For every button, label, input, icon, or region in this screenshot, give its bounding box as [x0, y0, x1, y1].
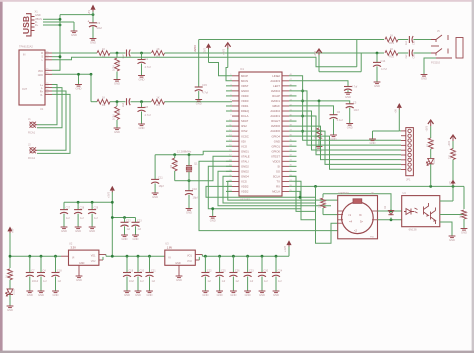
ground — [52, 290, 59, 292]
svg-text:+5V: +5V — [394, 109, 397, 114]
ground — [114, 127, 121, 129]
svg-text:GPIO4: GPIO4 — [271, 134, 280, 138]
svg-text:GND: GND — [75, 229, 81, 233]
svg-text:1uf: 1uf — [250, 280, 254, 283]
capacitor C27 — [63, 202, 65, 209]
wire — [413, 52, 431, 54]
svg-text:GND: GND — [202, 293, 208, 297]
wire — [356, 40, 358, 67]
ground — [186, 208, 193, 210]
svg-text:RCAP: RCAP — [272, 94, 280, 98]
wire — [223, 176, 316, 203]
resistor R7 — [318, 101, 320, 128]
wire — [37, 91, 66, 150]
svg-text:+5V: +5V — [450, 180, 452, 184]
svg-text:1uf: 1uf — [127, 228, 131, 231]
svg-text:10nf: 10nf — [354, 108, 359, 112]
connector X1 USB — [26, 14, 35, 36]
resistor R13 — [385, 37, 398, 42]
svg-text:1uf: 1uf — [235, 280, 239, 283]
svg-text:GND: GND — [139, 78, 145, 82]
svg-text:C6: C6 — [337, 110, 341, 114]
wire to +5V — [60, 14, 93, 16]
wire to IC — [165, 101, 233, 103]
svg-text:GND: GND — [79, 262, 85, 265]
supply arrow — [428, 120, 434, 124]
ground — [132, 234, 139, 236]
ground — [346, 123, 353, 125]
svg-text:R14: R14 — [11, 270, 14, 275]
svg-text:C19: C19 — [129, 270, 134, 273]
wire — [131, 52, 152, 54]
svg-text:R-: R- — [40, 94, 43, 97]
svg-text:4.7uf: 4.7uf — [202, 91, 208, 95]
supply arrow — [397, 103, 402, 108]
svg-text:VO1: VO1 — [91, 254, 96, 257]
resistor R10 220 — [322, 194, 324, 198]
ground — [273, 290, 280, 292]
svg-text:R4: R4 — [102, 55, 106, 59]
wire — [199, 161, 338, 230]
svg-text:AGND1: AGND1 — [270, 114, 280, 118]
ground — [178, 265, 180, 275]
wire MIDI left vert — [316, 186, 338, 243]
capacitor C10 — [185, 190, 193, 192]
svg-text:GND: GND — [76, 278, 82, 282]
wire to header — [289, 111, 401, 150]
svg-text:R8: R8 — [102, 103, 106, 107]
svg-text:R1: R1 — [156, 103, 160, 107]
wire to header — [289, 116, 401, 155]
svg-text:1K: 1K — [426, 144, 429, 147]
svg-text:C10: C10 — [192, 187, 197, 191]
svg-text:P1: P1 — [46, 55, 48, 57]
svg-text:+3V3: +3V3 — [223, 48, 226, 55]
svg-text:P1: P1 — [46, 51, 48, 53]
svg-text:USB: USB — [21, 16, 31, 34]
ground — [75, 84, 82, 86]
svg-text:GND: GND — [273, 293, 279, 297]
svg-text:2u2: 2u2 — [122, 102, 125, 107]
wire — [319, 71, 361, 73]
wire L pin long — [52, 57, 357, 66]
svg-text:C13: C13 — [413, 40, 416, 45]
ground — [121, 234, 128, 236]
svg-text:VO2: VO2 — [187, 260, 192, 263]
capacitor C23 — [135, 218, 137, 223]
svg-text:GND: GND — [114, 130, 120, 134]
ground — [26, 290, 33, 292]
svg-text:GND: GND — [38, 74, 44, 77]
svg-text:1uf: 1uf — [207, 280, 211, 283]
wire — [64, 201, 112, 203]
svg-text:GND1: GND1 — [241, 149, 249, 153]
wire — [201, 255, 203, 257]
ground — [75, 226, 82, 228]
supply +1V8 — [286, 240, 291, 245]
svg-text:LED1: LED1 — [433, 157, 436, 164]
svg-text:4K7: 4K7 — [465, 210, 468, 215]
svg-text:4.7uf: 4.7uf — [381, 67, 387, 71]
svg-text:12.288MHz: 12.288MHz — [177, 149, 192, 153]
IC1 pins — [232, 75, 239, 77]
svg-text:LINE2: LINE2 — [272, 74, 280, 78]
svg-text:PJ320J: PJ320J — [431, 61, 441, 65]
svg-text:C18: C18 — [57, 270, 62, 273]
capacitor C21 — [149, 256, 151, 272]
wire — [360, 53, 362, 72]
capacitor C23 — [247, 256, 249, 272]
svg-text:VDD2: VDD2 — [241, 190, 249, 194]
capacitor C16 series — [408, 50, 410, 57]
svg-text:R2: R2 — [156, 55, 160, 59]
wire — [206, 186, 316, 197]
capacitor C1 — [141, 53, 143, 60]
supply arrow — [206, 43, 211, 48]
wire — [110, 101, 126, 103]
capacitor C2 series — [126, 50, 128, 57]
capacitor C12 — [344, 86, 352, 88]
wire — [37, 88, 62, 128]
capacitor C13 series — [408, 36, 410, 43]
supply arrow — [450, 180, 455, 184]
svg-text:100K: 100K — [113, 114, 116, 120]
wire — [399, 130, 401, 132]
svg-text:C22: C22 — [126, 219, 131, 222]
supply arrow — [316, 49, 322, 53]
op-amp IC1 VS1053 — [239, 72, 282, 196]
wire 5V vertical — [59, 15, 61, 71]
capacitor C11 — [154, 155, 156, 180]
svg-text:IC1: IC1 — [240, 67, 245, 71]
svg-text:DREQ: DREQ — [241, 109, 250, 113]
capacitor C5 — [346, 103, 354, 105]
svg-text:RIGHT: RIGHT — [271, 119, 280, 123]
svg-text:1uf: 1uf — [140, 280, 144, 283]
svg-text:X1: X1 — [35, 10, 39, 14]
wire — [188, 155, 190, 166]
svg-text:P1: P1 — [46, 83, 48, 85]
svg-text:AVDD2: AVDD2 — [271, 89, 281, 93]
U1 pin stubs — [45, 52, 52, 54]
supply +3V3 — [225, 43, 231, 47]
resistor R9 — [116, 102, 118, 106]
svg-text:R15: R15 — [389, 55, 394, 59]
wire — [43, 21, 74, 23]
svg-text:GND: GND — [152, 195, 158, 199]
wire — [226, 190, 232, 192]
ground — [421, 74, 428, 76]
ground — [449, 235, 456, 237]
diode D2 — [390, 207, 392, 211]
ground — [7, 305, 14, 307]
wire GBUF cap — [289, 106, 334, 115]
svg-text:GND: GND — [217, 293, 223, 297]
wire RX down — [289, 181, 316, 220]
svg-text:4.7uf: 4.7uf — [145, 65, 151, 69]
svg-text:1uf: 1uf — [80, 217, 84, 220]
wire — [131, 101, 152, 103]
capacitor C7 — [29, 256, 31, 272]
svg-text:C20: C20 — [140, 270, 145, 273]
svg-text:AVDD1: AVDD1 — [271, 99, 281, 103]
svg-text:MICP: MICP — [241, 74, 248, 78]
svg-text:MICN: MICN — [241, 79, 248, 83]
capacitor C6 — [330, 114, 338, 116]
wire — [430, 164, 432, 186]
svg-text:IN: IN — [23, 54, 26, 57]
wire +5V bus — [289, 185, 464, 187]
svg-text:+5V: +5V — [88, 10, 91, 15]
capacitor C14 — [376, 53, 378, 62]
svg-text:100K: 100K — [113, 65, 116, 71]
svg-text:MCLA: MCLA — [272, 190, 280, 194]
svg-text:6N138: 6N138 — [409, 228, 417, 232]
capacitor C29 — [91, 202, 93, 209]
svg-text:GND: GND — [124, 293, 130, 297]
capacitor C9 series — [126, 98, 128, 105]
svg-text:1uf: 1uf — [152, 280, 156, 283]
ground — [195, 99, 202, 101]
frame border bottom — [0, 351, 474, 353]
crystal Q1 — [186, 165, 192, 167]
svg-text:P1: P1 — [46, 86, 48, 88]
svg-text:C25: C25 — [221, 270, 226, 273]
connector JP1 header — [406, 128, 414, 176]
svg-text:RCA1: RCA1 — [28, 131, 36, 135]
optocoupler U4 6N138 — [402, 196, 440, 227]
svg-text:GND: GND — [35, 14, 41, 17]
svg-text:1uf: 1uf — [138, 228, 142, 231]
svg-text:GND: GND — [61, 229, 67, 233]
svg-text:VI: VI — [72, 256, 75, 259]
wire — [9, 280, 11, 289]
svg-text:AVDD: AVDD — [194, 45, 197, 52]
svg-text:VDD1: VDD1 — [241, 104, 249, 108]
svg-text:1K: 1K — [102, 96, 105, 100]
svg-text:GND: GND — [259, 293, 265, 297]
wire LINE2 to header — [289, 76, 401, 141]
wire S pin — [52, 56, 60, 58]
wire AVDD cap — [289, 81, 348, 87]
svg-text:GND0: GND0 — [241, 89, 249, 93]
wire — [378, 219, 402, 221]
svg-text:GND: GND — [27, 293, 33, 297]
wire rail — [10, 255, 61, 257]
capacitor C19 — [126, 256, 128, 272]
svg-text:P1: P1 — [46, 93, 48, 95]
resistor R14 — [8, 269, 13, 280]
wire — [37, 85, 57, 125]
ground — [230, 290, 237, 292]
ground — [209, 216, 216, 218]
svg-text:R13: R13 — [389, 41, 394, 45]
svg-text:220: 220 — [449, 154, 452, 159]
wire — [398, 52, 408, 54]
ground — [347, 90, 349, 92]
svg-text:SDAT: SDAT — [241, 119, 249, 123]
capacitor C22 — [124, 218, 126, 223]
capacitor C15 — [195, 86, 203, 88]
svg-text:I2S2: I2S2 — [241, 124, 247, 128]
DIN pin stubs — [338, 210, 343, 212]
wire to header — [289, 136, 401, 169]
wire — [228, 181, 338, 200]
svg-text:VS1053: VS1053 — [240, 198, 250, 202]
svg-text:SI: SI — [277, 164, 280, 168]
svg-text:C22: C22 — [207, 270, 212, 273]
wire opto out — [440, 214, 464, 216]
svg-text:+3V3: +3V3 — [314, 50, 317, 56]
connector J6 MAB5SH DIN — [338, 196, 378, 239]
wire gnd branch — [212, 209, 214, 216]
wire XTALI — [203, 151, 232, 155]
wire VCC — [52, 69, 60, 71]
svg-text:Q1: Q1 — [194, 162, 198, 166]
svg-text:XCS: XCS — [241, 180, 247, 184]
svg-text:XDI: XDI — [241, 139, 246, 143]
svg-text:AGND3: AGND3 — [270, 79, 280, 83]
wire — [102, 257, 104, 260]
ground — [461, 228, 468, 230]
svg-text:R10: R10 — [324, 199, 327, 204]
svg-text:VDD0: VDD0 — [241, 99, 249, 103]
wire to header — [289, 126, 401, 160]
svg-text:AGND0: AGND0 — [270, 129, 280, 133]
svg-text:GND: GND — [461, 231, 467, 235]
svg-text:10uf: 10uf — [97, 26, 103, 30]
svg-text:C24: C24 — [278, 270, 283, 273]
ground — [244, 290, 251, 292]
ground — [374, 81, 381, 83]
svg-text:1K: 1K — [390, 34, 393, 38]
svg-text:C16: C16 — [413, 53, 416, 58]
wire row2 feed — [90, 74, 92, 101]
svg-text:GND: GND — [135, 293, 141, 297]
svg-text:GND4: GND4 — [241, 175, 249, 179]
wire opto vcc — [440, 200, 453, 202]
frame border left — [0, 0, 3, 353]
svg-text:GND: GND — [147, 293, 153, 297]
wire — [430, 149, 432, 158]
svg-text:GND: GND — [7, 308, 13, 312]
svg-text:1uf: 1uf — [43, 280, 47, 283]
svg-text:GBUF: GBUF — [272, 104, 280, 108]
svg-text:C28: C28 — [80, 207, 85, 210]
svg-text:1.8V: 1.8V — [167, 246, 173, 250]
svg-text:C8: C8 — [145, 105, 149, 109]
svg-text:2u2: 2u2 — [405, 40, 408, 45]
wire RCAP cap — [289, 101, 350, 104]
svg-text:VO2: VO2 — [91, 260, 96, 263]
svg-text:C23: C23 — [137, 219, 142, 222]
capacitor C28 — [77, 202, 79, 209]
resistor R16 — [428, 138, 433, 149]
svg-text:1uf: 1uf — [222, 280, 226, 283]
wire XTALO — [189, 156, 232, 181]
ground — [61, 226, 68, 228]
ground — [152, 192, 159, 194]
svg-text:U2: U2 — [69, 241, 73, 245]
svg-text:1uf: 1uf — [66, 217, 70, 220]
svg-text:GND: GND — [76, 87, 82, 91]
svg-text:VI: VI — [168, 256, 171, 259]
svg-text:1uf: 1uf — [94, 217, 98, 220]
svg-text:IOS2: IOS2 — [241, 129, 248, 133]
wire long top y39.5 — [199, 39, 384, 41]
svg-text:GND2: GND2 — [241, 164, 249, 168]
svg-text:VDD0: VDD0 — [241, 94, 249, 98]
ground — [138, 75, 145, 77]
resistor R1 — [152, 99, 165, 104]
wire — [323, 214, 338, 216]
ground — [138, 123, 145, 125]
svg-text:OUT: OUT — [22, 88, 28, 91]
svg-text:XTEST: XTEST — [271, 154, 280, 158]
svg-text:1K: 1K — [156, 47, 159, 51]
svg-text:P1: P1 — [46, 73, 48, 75]
svg-text:C27: C27 — [66, 207, 71, 210]
svg-text:GND: GND — [133, 237, 139, 241]
svg-text:1K: 1K — [156, 96, 159, 100]
LED2 — [7, 289, 13, 295]
ground — [330, 134, 337, 136]
svg-text:C14: C14 — [381, 59, 386, 63]
resistor R6 — [463, 186, 465, 209]
capacitor C24 — [275, 256, 277, 272]
op-amp U1 box — [19, 50, 45, 105]
capacitor C26 — [232, 256, 234, 272]
svg-text:R17: R17 — [454, 150, 457, 155]
wire crystal top node — [155, 154, 203, 156]
svg-text:VDD2: VDD2 — [241, 185, 249, 189]
svg-text:4.7uf: 4.7uf — [145, 113, 151, 117]
ground — [38, 290, 45, 292]
resistor R2 — [152, 51, 165, 56]
svg-text:MAB5SH: MAB5SH — [339, 191, 350, 195]
ground — [73, 22, 75, 31]
resistor R3 — [116, 53, 118, 58]
ground — [90, 38, 97, 40]
svg-text:GND: GND — [71, 33, 77, 37]
capacitor C22 — [204, 256, 206, 272]
svg-text:C26: C26 — [235, 270, 240, 273]
svg-text:1uf: 1uf — [58, 280, 62, 283]
svg-text:GND: GND — [196, 102, 202, 106]
capacitor C4 — [40, 256, 42, 272]
voltage regulator U3 1.8V — [165, 250, 196, 265]
svg-text:GND: GND — [38, 293, 44, 297]
svg-text:GND: GND — [175, 262, 181, 265]
svg-text:GND: GND — [89, 229, 95, 233]
supply +5V — [90, 5, 95, 10]
wire VBUS — [43, 18, 60, 20]
svg-text:GND: GND — [186, 211, 192, 215]
svg-text:18pf: 18pf — [159, 184, 164, 188]
supply +3V3 — [110, 186, 115, 191]
ground — [202, 290, 209, 292]
svg-text:GPIO0: GPIO0 — [271, 149, 280, 153]
capacitor C25 — [219, 256, 221, 272]
svg-text:GND: GND — [421, 77, 427, 81]
ground — [78, 265, 80, 275]
resistor R4 — [97, 51, 110, 56]
svg-text:GND: GND — [210, 219, 216, 223]
svg-text:GND: GND — [370, 141, 376, 145]
supply +5V — [7, 227, 12, 232]
svg-text:GND: GND — [274, 139, 280, 143]
wire — [110, 52, 126, 54]
